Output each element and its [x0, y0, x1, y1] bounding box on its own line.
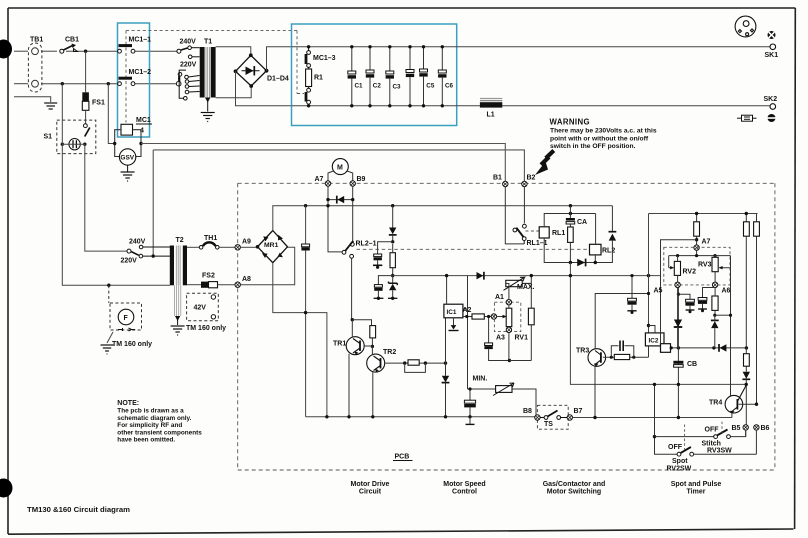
- preset pot RV1 network: [494, 302, 520, 331]
- wire A8 row to MR1 stub: [240, 247, 294, 284]
- selector 240V tap T1: [177, 46, 200, 53]
- wire fuse to S1 blade: [85, 110, 87, 123]
- wire neutral row: [14, 83, 28, 85]
- switch spot RV2SW: [677, 447, 694, 456]
- pad A7 right: [694, 245, 699, 250]
- svg-text:OFF: OFF: [705, 427, 720, 434]
- wire RL2 bottom: [594, 255, 596, 263]
- fuse FS1: [82, 92, 89, 101]
- cap A2 node: [484, 315, 509, 361]
- node cap lower rail: [304, 311, 307, 314]
- wire bridge left to bottom rail: [236, 71, 292, 106]
- svg-text:F: F: [124, 315, 129, 322]
- wire T1 secondary bottom to ground: [207, 98, 209, 112]
- selector 220V tap T2: [139, 254, 170, 258]
- resistor TR2 base: [408, 360, 419, 365]
- svg-text:have been omitted.: have been omitted.: [117, 437, 175, 444]
- wire A7 lead down: [328, 186, 342, 252]
- svg-text:A7: A7: [315, 176, 324, 183]
- wire TR2 collector up: [371, 346, 373, 354]
- contact MC1-3 lower: [306, 87, 311, 106]
- wiper arrow RV1: [497, 316, 504, 318]
- svg-text:B8: B8: [523, 408, 532, 415]
- svg-text:PCB: PCB: [395, 454, 410, 461]
- svg-text:MC1–1: MC1–1: [129, 37, 152, 44]
- node MC1-3 bottom: [307, 104, 310, 107]
- fuse FS2: [201, 282, 209, 288]
- svg-text:B6: B6: [761, 425, 770, 432]
- wire RL1 bottom: [544, 238, 612, 263]
- svg-text:T1: T1: [204, 39, 212, 46]
- svg-text:Motor Drive: Motor Drive: [351, 481, 390, 488]
- wire rail L3: [393, 275, 661, 277]
- wire B5 lead: [745, 430, 747, 437]
- pad A9: [235, 245, 240, 250]
- svg-text:42V: 42V: [194, 305, 207, 312]
- wire TR3 base row: [603, 346, 649, 357]
- switch stitch RV3SW: [655, 436, 714, 438]
- svg-text:Gas/Contactor and: Gas/Contactor and: [543, 481, 606, 488]
- torch connector symbol: [737, 115, 757, 121]
- svg-text:A2: A2: [463, 307, 472, 314]
- wire TR3 emitter: [594, 366, 596, 417]
- svg-text:R1: R1: [314, 75, 323, 82]
- wire earth row: [14, 97, 51, 102]
- socket SK2: [770, 104, 776, 110]
- svg-text:Motor Switching: Motor Switching: [547, 489, 601, 496]
- node MC1-3 top: [307, 45, 310, 48]
- wire IC1 ground leg: [453, 318, 455, 329]
- node diode branch top: [391, 204, 394, 207]
- wire S1 down to T2 blade common: [85, 144, 127, 251]
- svg-text:GSV: GSV: [120, 155, 134, 162]
- svg-text:L1: L1: [487, 112, 495, 119]
- thermal switch TH1: [199, 242, 219, 249]
- svg-text:A3: A3: [496, 335, 505, 342]
- svg-text:D1–D4: D1–D4: [267, 76, 289, 83]
- svg-text:A8: A8: [242, 276, 251, 283]
- svg-text:Timer: Timer: [687, 489, 706, 496]
- wire TH1 to A9: [219, 246, 235, 248]
- svg-text:For simplicity RF and: For simplicity RF and: [117, 422, 182, 429]
- motor M: [332, 159, 348, 175]
- svg-text:MAX.: MAX.: [517, 284, 535, 291]
- resistor TR4 feed: [744, 354, 750, 367]
- svg-text:CB1: CB1: [65, 37, 79, 44]
- resistor A7 feed: [694, 222, 700, 236]
- svg-text:RV2SW: RV2SW: [667, 466, 692, 473]
- punch hole bottom: [0, 479, 13, 498]
- bridge rectifier D1-D4: [236, 55, 267, 86]
- wire sense vertical: [468, 276, 496, 389]
- svg-text:A7: A7: [702, 239, 711, 246]
- capacitor C2: [366, 45, 382, 107]
- svg-text:TB1: TB1: [30, 37, 43, 44]
- svg-text:IC1: IC1: [447, 309, 457, 316]
- wire TR4 base: [739, 403, 757, 405]
- svg-text:B9: B9: [357, 176, 366, 183]
- wire MAX left to A1: [506, 284, 509, 300]
- wire B9 lead down: [352, 186, 354, 242]
- selector 220V tap T1: [188, 55, 199, 59]
- svg-text:B5: B5: [732, 425, 741, 432]
- wire primary bottom T2: [109, 284, 170, 286]
- resistor RV1 parallel: [528, 308, 534, 325]
- svg-text:C6: C6: [445, 83, 454, 90]
- svg-text:TR4: TR4: [709, 400, 722, 407]
- pad B9 motor: [350, 181, 355, 186]
- svg-text:A6: A6: [722, 288, 731, 295]
- resistor A6 leg: [712, 296, 718, 310]
- fan motor F: [109, 285, 142, 330]
- svg-text:C5: C5: [426, 83, 435, 90]
- pressure switch S1: [57, 120, 96, 154]
- contact MC1-3: [306, 47, 311, 69]
- wire IC2 out: [671, 347, 747, 349]
- inductor L1: [480, 99, 502, 119]
- diode snubber: [389, 206, 397, 242]
- capacitor C1: [348, 45, 363, 107]
- svg-text:MC1–2: MC1–2: [129, 69, 152, 76]
- wire timing vertical: [677, 287, 679, 417]
- ground fan: [101, 345, 114, 354]
- svg-text:MC1: MC1: [136, 117, 151, 124]
- pcb dashed boundary: [238, 183, 775, 470]
- svg-text:WARNING: WARNING: [550, 117, 590, 126]
- svg-text:A9: A9: [242, 239, 251, 246]
- svg-text:point with or without the on/o: point with or without the on/off: [550, 135, 649, 142]
- loop parallel lower: [405, 363, 426, 372]
- wire TR1 collector up: [351, 320, 353, 337]
- capacitor TR3 parallel: [611, 341, 634, 358]
- pad A8: [235, 282, 240, 287]
- ground T2 core: [177, 316, 179, 325]
- capacitor C4: [406, 45, 414, 107]
- svg-text:B1: B1: [493, 175, 502, 182]
- wire GSV left branch: [108, 84, 114, 144]
- pad B8: [535, 415, 540, 420]
- wire IC1 out pin: [463, 316, 472, 318]
- wire coil left: [115, 130, 121, 157]
- wire MR1 bottom to lower rail: [273, 263, 327, 417]
- wire A5 down: [677, 288, 679, 295]
- node S1 right: [83, 143, 86, 146]
- svg-text:C1: C1: [355, 83, 364, 90]
- svg-text:TR3: TR3: [576, 348, 589, 355]
- wire A7res to IC2: [661, 240, 697, 344]
- node GSV neutral drop: [107, 82, 110, 85]
- wire TR3 collector: [595, 294, 648, 349]
- svg-text:240V: 240V: [180, 39, 197, 46]
- ground earth-left: [44, 103, 57, 109]
- wire top rail 47: [292, 46, 773, 48]
- terminal block TB1: [28, 43, 42, 92]
- wire A3 down: [508, 333, 510, 361]
- wire RV3 wiper down to TR4: [729, 314, 732, 317]
- resistor R1: [306, 69, 312, 87]
- svg-text:FS1: FS1: [92, 100, 105, 107]
- zener regulator: [388, 276, 397, 300]
- diode bottom rail RL: [577, 259, 585, 266]
- wire IC2 feed jog: [649, 326, 656, 333]
- coil RL1: [539, 227, 549, 238]
- gas solenoid valve GSV: [119, 149, 135, 165]
- resistor TR3 base: [614, 354, 629, 359]
- svg-text:RV1: RV1: [515, 335, 529, 342]
- capacitor main smoothing: [301, 206, 309, 417]
- pad A1: [506, 300, 511, 305]
- svg-text:SK2: SK2: [764, 96, 778, 103]
- contact TS: [540, 411, 567, 420]
- wire FS1 drop: [85, 51, 87, 92]
- diode TR4 feed: [743, 372, 750, 379]
- svg-text:220V: 220V: [180, 62, 197, 69]
- wire RL1 top: [544, 214, 595, 227]
- pad B1: [503, 181, 508, 186]
- wire bottom RV1 row: [509, 360, 531, 362]
- svg-text:240V: 240V: [129, 239, 146, 246]
- wire T2 secondary bottom row: [187, 284, 201, 286]
- capacitor gas filter: [627, 274, 636, 314]
- diode IC2 out: [720, 344, 727, 351]
- motor leads: [328, 171, 334, 181]
- capacitor CB: [673, 361, 683, 367]
- socket SK1: [770, 44, 776, 50]
- pad A5: [675, 282, 680, 287]
- capacitor snubber: [373, 242, 393, 269]
- wire B2 lead: [523, 187, 525, 224]
- svg-text:C2: C2: [373, 83, 382, 90]
- wire TR2 base row: [385, 362, 446, 364]
- diode RL2 flyback: [601, 206, 616, 263]
- svg-text:SK1: SK1: [765, 52, 779, 59]
- svg-text:TS: TS: [544, 421, 553, 428]
- svg-text:RL1: RL1: [552, 230, 565, 237]
- node snubber mid: [391, 240, 394, 243]
- svg-text:TR1: TR1: [333, 341, 346, 348]
- pad A3: [506, 327, 511, 332]
- svg-text:B2: B2: [527, 175, 536, 182]
- svg-text:M: M: [337, 165, 343, 172]
- pot box RV2 RV3: [664, 247, 730, 285]
- wire top rail right: [649, 213, 758, 215]
- wire T1 top to bridge: [216, 47, 251, 54]
- transistor TR1: [346, 337, 364, 356]
- svg-text:Spot and Pulse: Spot and Pulse: [671, 481, 722, 488]
- svg-text:A1: A1: [495, 294, 504, 301]
- svg-text:IC2: IC2: [649, 337, 659, 344]
- box IC2 aux: [661, 344, 671, 353]
- wire TR4 emitter: [731, 413, 733, 418]
- svg-text:B7: B7: [574, 408, 583, 415]
- node coil left: [113, 142, 116, 145]
- ground GSV: [121, 172, 135, 181]
- svg-text:The pcb is drawn as a: The pcb is drawn as a: [117, 408, 184, 415]
- cap min node: [464, 387, 476, 424]
- fan terminals: [118, 328, 135, 331]
- node base row right: [424, 361, 427, 364]
- wire B1 lead: [505, 187, 524, 244]
- node TR1 collector: [351, 318, 354, 321]
- svg-text:RV2: RV2: [683, 269, 697, 276]
- wire B6 lead: [755, 430, 757, 454]
- wire TR1 emitter down: [348, 354, 350, 417]
- resistor timer right1: [744, 222, 750, 236]
- svg-text:RV3: RV3: [698, 262, 712, 269]
- transistor TR4: [725, 385, 746, 414]
- wire rail B7 right: [573, 417, 732, 419]
- pad B2: [522, 181, 527, 186]
- switch S1 blade: [84, 124, 90, 137]
- resistor TR1 base: [370, 326, 376, 338]
- wire switch feed: [655, 384, 678, 454]
- svg-text:Spot: Spot: [672, 458, 688, 465]
- pad B7: [567, 415, 572, 420]
- svg-text:Circuit: Circuit: [359, 489, 382, 496]
- svg-text:A5: A5: [654, 288, 663, 295]
- node coil right: [139, 142, 142, 145]
- node rail feed right: [647, 274, 650, 277]
- wire T1 bottom to bridge: [216, 85, 252, 98]
- core tails T2: [175, 285, 181, 316]
- wire long row to B1: [141, 144, 505, 182]
- svg-text:RV3SW: RV3SW: [707, 448, 732, 455]
- ground T1: [201, 113, 215, 122]
- wire GSV to ground: [127, 165, 129, 171]
- wire TR1 feedback loop: [352, 320, 371, 326]
- svg-text:MIN.: MIN.: [473, 376, 488, 383]
- contact MC1-2: [118, 78, 135, 85]
- wire IC1 top feed: [446, 276, 448, 305]
- pad B6: [754, 425, 759, 430]
- capacitor A6: [698, 288, 715, 313]
- wire feed vertical right: [648, 214, 650, 333]
- wire pot top row: [669, 250, 715, 255]
- warning lightning bolt: [535, 151, 554, 176]
- pot RV3: [715, 256, 730, 396]
- svg-text:S1: S1: [44, 134, 53, 141]
- wire coil right: [133, 130, 142, 157]
- wire TR2 emitter down: [372, 372, 374, 417]
- transistor TR2: [367, 354, 385, 373]
- capacitor C6: [438, 45, 453, 107]
- wire RL2 top: [595, 214, 597, 245]
- coil MC1/4: [121, 124, 133, 135]
- wire A6 to wiper line: [715, 314, 731, 316]
- wire fan to ground: [107, 332, 113, 343]
- capacitor A5: [678, 294, 695, 313]
- chip IC2: [645, 333, 664, 346]
- node base row left: [403, 361, 406, 364]
- wire bottom rail pcb: [306, 416, 535, 418]
- circuit breaker CB1: [60, 44, 78, 54]
- svg-text:OFF: OFF: [668, 444, 683, 451]
- svg-text:TH1: TH1: [204, 235, 217, 242]
- contactor box MC1: [118, 23, 150, 137]
- diode IC1 leg: [442, 376, 449, 383]
- capacitor hf filter: [374, 276, 393, 300]
- wire MIN to rail: [512, 389, 536, 417]
- suppression box: [292, 24, 457, 126]
- svg-text:TM 160 only: TM 160 only: [186, 325, 226, 332]
- svg-text:switch in the OFF position.: switch in the OFF position.: [550, 143, 636, 150]
- svg-text:FS2: FS2: [202, 273, 215, 280]
- svg-text:TM 160 only: TM 160 only: [112, 341, 152, 348]
- mech link dashed RL1: [526, 230, 540, 232]
- wire bridge right to top rail: [267, 47, 292, 71]
- svg-text:MC1–3: MC1–3: [313, 55, 336, 62]
- wire long row to B2: [153, 150, 524, 255]
- selector 240V tap T2: [127, 245, 170, 255]
- svg-text:220V: 220V: [121, 258, 138, 265]
- wire live row: [14, 50, 28, 52]
- pot RV2: [669, 256, 671, 268]
- capacitor CA: [566, 204, 575, 227]
- wire IC1 left leg: [445, 317, 447, 376]
- mech link dashed MC1: [126, 31, 304, 123]
- diode A5 leg: [677, 294, 679, 319]
- node neutral drop left: [61, 82, 64, 85]
- wire FS2 to A8: [218, 284, 235, 286]
- diode timing: [675, 320, 682, 327]
- pad B5: [743, 425, 748, 430]
- svg-text:There may be 230Volts a.c. at: There may be 230Volts a.c. at this: [550, 128, 657, 135]
- diodes MR1 arms: [263, 236, 268, 241]
- relay contact RL1-1: [513, 224, 526, 244]
- node S1 left: [61, 143, 64, 146]
- svg-text:C3: C3: [393, 84, 402, 91]
- svg-text:TM130 &160 Circuit diagram: TM130 &160 Circuit diagram: [27, 505, 130, 514]
- junction FS1 top: [84, 50, 87, 53]
- bridge rectifier MR1: [258, 231, 288, 263]
- svg-text:other transient components: other transient components: [117, 429, 202, 436]
- coil RL2: [590, 244, 602, 255]
- diode freewheel motor: [328, 199, 353, 201]
- resistor snubber: [390, 253, 395, 268]
- wire bottom rail 106: [292, 105, 773, 107]
- mech link dashed RL2: [357, 248, 589, 250]
- wire A9 to MR1: [240, 246, 256, 248]
- svg-text:Control: Control: [452, 489, 477, 496]
- svg-text:Stitch: Stitch: [702, 441, 721, 448]
- svg-text:MR1: MR1: [264, 242, 279, 249]
- pot RV1: [506, 308, 512, 326]
- stud minus: [768, 114, 776, 122]
- node 220V feed: [152, 254, 155, 257]
- capacitor C5: [419, 45, 435, 107]
- node L3 start: [391, 274, 394, 277]
- diode rail L3: [477, 272, 484, 279]
- svg-text:schematic diagram only.: schematic diagram only.: [117, 415, 191, 422]
- resistor timer right2: [754, 222, 760, 236]
- node IC1 drop: [444, 361, 447, 364]
- selector lower taps T1: [176, 70, 199, 100]
- svg-text:CA: CA: [577, 219, 587, 226]
- capacitor C3: [386, 45, 401, 107]
- svg-text:CB: CB: [687, 361, 697, 368]
- svg-text:T2: T2: [176, 237, 184, 244]
- svg-text:NOTE:: NOTE:: [117, 400, 139, 407]
- wire T2 secondary top row: [187, 246, 199, 248]
- svg-text:Motor Speed: Motor Speed: [443, 481, 485, 488]
- preset MIN: [496, 386, 512, 393]
- node cap top: [304, 204, 307, 207]
- wire RL2-1 lower contact to TR1: [351, 258, 353, 320]
- contact MC1-1: [118, 46, 135, 54]
- svg-text:TR2: TR2: [383, 349, 396, 356]
- wire gas left boundary: [570, 263, 746, 385]
- pad A6: [712, 282, 717, 287]
